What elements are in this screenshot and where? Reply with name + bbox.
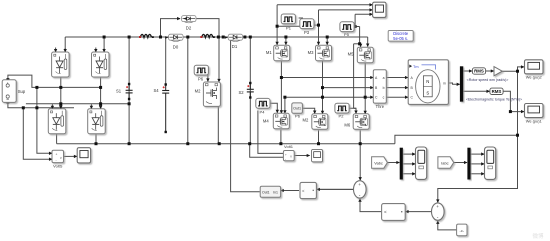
svg-text:M2: M2 [195, 89, 201, 94]
svg-text:S2: S2 [238, 90, 244, 95]
svg-text:P3: P3 [304, 30, 310, 35]
svg-text:a: a [383, 76, 385, 80]
svg-text:m: m [443, 82, 446, 86]
svg-text:<Rotor speed wm (rad/s)>: <Rotor speed wm (rad/s)> [467, 78, 509, 82]
svg-text:<Electromagnetic torque Te (N*: <Electromagnetic torque Te (N*m)> [466, 97, 522, 101]
svg-text:c: c [383, 96, 385, 100]
svg-text:P1: P1 [286, 26, 292, 31]
svg-text:Thre: Thre [376, 104, 385, 109]
svg-text:M6: M6 [344, 123, 350, 128]
svg-text:v: v [60, 156, 62, 160]
svg-text:M5: M5 [348, 51, 354, 56]
svg-text:Vabc: Vabc [374, 160, 383, 165]
svg-text:Tm: Tm [413, 65, 418, 69]
svg-text:Sup: Sup [18, 89, 26, 94]
svg-text:We (pu)1: We (pu)1 [526, 118, 542, 123]
svg-text:Out1: Out1 [262, 191, 270, 195]
svg-text:<: < [384, 210, 387, 215]
svg-text:5e-05 s.: 5e-05 s. [393, 36, 408, 41]
svg-text:-: - [285, 157, 286, 161]
svg-text:S: S [426, 90, 429, 95]
svg-text:M1: M1 [266, 50, 272, 55]
svg-text:Iabc: Iabc [441, 160, 448, 165]
svg-text:+: + [56, 153, 58, 157]
svg-text:VoltS: VoltS [53, 164, 63, 169]
svg-text:b: b [383, 86, 385, 90]
svg-text:In1: In1 [273, 191, 278, 195]
svg-text:P5: P5 [344, 32, 350, 37]
svg-text:Volt1: Volt1 [284, 144, 294, 149]
svg-text:Out1: Out1 [293, 107, 301, 111]
svg-text:M4: M4 [263, 119, 269, 124]
svg-text:M3: M3 [308, 50, 314, 55]
svg-text:P6: P6 [295, 114, 301, 119]
svg-text:P6: P6 [198, 77, 204, 82]
svg-text:-c-: -c- [459, 228, 464, 233]
svg-text:D1: D1 [232, 44, 238, 49]
svg-text:D2: D2 [186, 26, 192, 31]
svg-text:N: N [426, 79, 429, 84]
svg-text:P4: P4 [260, 109, 266, 114]
svg-text:S1: S1 [116, 89, 122, 94]
svg-text:P2: P2 [339, 114, 345, 119]
svg-text:微博: 微博 [532, 232, 544, 240]
svg-text:+: + [285, 152, 287, 156]
svg-text:M2: M2 [302, 118, 308, 123]
svg-text:We (pu)2: We (pu)2 [526, 75, 542, 80]
svg-text:D0: D0 [173, 45, 179, 50]
svg-text:S4: S4 [153, 88, 159, 93]
